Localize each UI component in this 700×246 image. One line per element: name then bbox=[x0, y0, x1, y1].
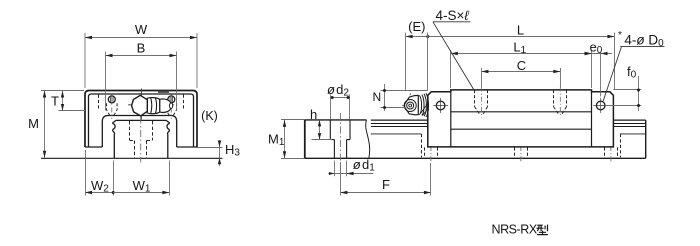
dimension L1 bbox=[451, 40, 592, 89]
rail bolt hole (hidden, dashed) bbox=[130, 121, 153, 158]
grease nipple (front view) bbox=[128, 89, 174, 120]
rail center line bbox=[140, 117, 142, 163]
rail hole 4 (hidden) bbox=[605, 146, 618, 163]
dimension phi-d2 bbox=[327, 82, 350, 119]
title NRS-RX (kata) bbox=[492, 223, 548, 237]
tap hole S right (hidden) bbox=[554, 87, 567, 118]
block outer outline bbox=[85, 91, 197, 148]
body profile lines bbox=[451, 112, 592, 129]
rail cross-section bbox=[113, 120, 170, 158]
svg-text:(E): (E) bbox=[408, 19, 425, 34]
dimension e0 bbox=[585, 39, 612, 96]
dimension f0 bbox=[608, 64, 641, 111]
dimension B bbox=[106, 41, 177, 111]
rail side profile lines bbox=[371, 120, 646, 158]
dimension phi-d1 bbox=[329, 157, 376, 176]
hidden seal edges bbox=[422, 134, 621, 157]
label 4-S x l with leader bbox=[433, 8, 474, 91]
rail hole 2 (hidden) bbox=[425, 146, 438, 163]
svg-text:*: * bbox=[618, 30, 622, 41]
dimension h bbox=[310, 107, 332, 140]
svg-text:N: N bbox=[372, 90, 381, 104]
block side outline bbox=[428, 90, 614, 147]
svg-text:W: W bbox=[135, 22, 148, 37]
svg-text:M: M bbox=[28, 116, 39, 131]
dimension N bbox=[372, 84, 427, 111]
block cavity bbox=[102, 116, 176, 148]
svg-text:B: B bbox=[137, 41, 146, 56]
rail counterbore (section) bbox=[330, 113, 350, 171]
svg-text:4-S×ℓ: 4-S×ℓ bbox=[436, 8, 470, 23]
block inner seal line bbox=[89, 92, 194, 147]
svg-text:h: h bbox=[310, 107, 317, 122]
rail hole 3 (hidden) bbox=[515, 146, 528, 163]
ground / datum line bbox=[41, 157, 223, 159]
dimension C bbox=[481, 58, 560, 88]
dimension M bbox=[28, 91, 84, 158]
left mounting hole bbox=[108, 94, 115, 105]
dimension F bbox=[340, 162, 431, 196]
left end cap screw hole bbox=[433, 98, 448, 113]
dimension W bbox=[85, 22, 197, 88]
end plate joints bbox=[451, 92, 592, 147]
label *4-phi-D0 with leader bbox=[603, 30, 664, 101]
dimension W2 bbox=[85, 150, 115, 196]
dimension L bbox=[428, 23, 615, 90]
dimension M1 bbox=[268, 120, 305, 159]
left hole hidden pocket bbox=[107, 103, 118, 119]
rail bottom line bbox=[305, 157, 646, 159]
grease nipple (side view) bbox=[402, 93, 428, 117]
svg-text:(K): (K) bbox=[201, 109, 218, 123]
svg-text:T: T bbox=[51, 94, 59, 109]
right mounting hole bbox=[168, 94, 175, 105]
right hole hidden pocket bbox=[166, 103, 177, 119]
rail section (left end) bbox=[305, 120, 370, 158]
right end cap screw hole bbox=[593, 98, 608, 113]
dimension (E) bbox=[406, 19, 430, 91]
dimension H3 bbox=[197, 140, 240, 166]
svg-text:C: C bbox=[517, 58, 526, 73]
svg-text:L: L bbox=[517, 23, 524, 38]
dimension T bbox=[51, 91, 85, 111]
dimension W1 bbox=[113, 161, 169, 196]
label (K) bbox=[201, 109, 218, 123]
svg-text:NRS-RX: NRS-RX bbox=[492, 223, 538, 237]
tap hole S left (hidden) bbox=[475, 87, 488, 118]
svg-text:F: F bbox=[382, 177, 390, 192]
hidden seal screw lines bbox=[99, 95, 184, 111]
